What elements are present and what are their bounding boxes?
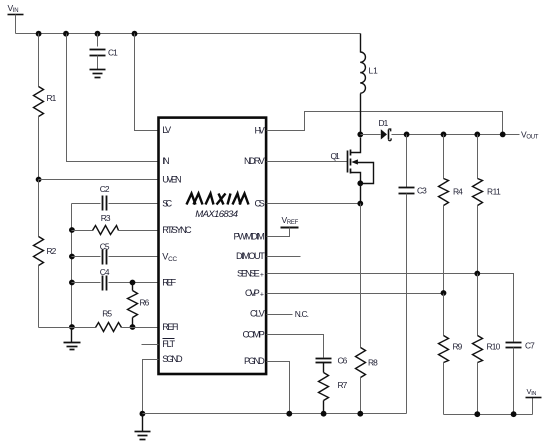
node OVP-R4 [441,290,447,296]
inductor L1 [360,34,378,135]
wire HV [267,112,503,135]
op-amp U1 MAX16834 IC body [159,118,267,374]
IC part number MAX16834 [195,209,238,220]
wire NDRV [267,161,348,163]
wire COMP [267,335,324,358]
wire bottom right rail [444,414,533,416]
svg-text:R1: R1 [47,93,57,103]
resistor R3 [72,213,159,235]
svg-text:L1: L1 [369,66,379,76]
node rail-REFI [69,324,75,330]
svg-text:REFI: REFI [162,322,178,332]
resistor R4 [439,135,464,294]
svg-text:CLV: CLV [250,309,266,319]
MAXIM logo [187,194,249,205]
wire OVP+ [267,293,444,295]
wire IN [67,34,159,162]
wire CLV stub [267,314,293,316]
wire FLT stub [142,344,159,346]
ground (under C1) [90,70,106,78]
svg-text:D1: D1 [379,118,389,128]
ground (SGND) [135,414,151,440]
node REFI-R6 [130,324,136,330]
svg-text:RT/SYNC: RT/SYNC [162,225,192,235]
svg-text:R7: R7 [338,380,348,390]
resistor R2 [34,180,57,328]
capacitor C3 [399,135,428,414]
svg-text:PGND: PGND [244,356,265,366]
node rail-REF [69,280,75,286]
svg-text:HV: HV [255,126,266,136]
node rail-PGND [286,411,292,417]
wire PGND [267,362,290,414]
svg-text:MAX16834: MAX16834 [195,209,238,220]
ground (left rail) [64,328,81,350]
transistor Q1 [331,138,374,184]
wire SENSE+ [267,274,514,342]
svg-text:Q1: Q1 [331,151,341,161]
svg-text:+: + [260,272,264,279]
VOUT label [521,129,539,140]
resistor R9 [439,294,463,415]
svg-text:PWMDIM: PWMDIM [234,232,265,242]
resistor R7 [319,363,348,414]
svg-text:R2: R2 [47,246,57,256]
node SENSE-R11 [474,271,480,277]
wire top VIN rail [16,33,361,35]
capacitor C2 [72,184,159,211]
svg-text:N.C.: N.C. [295,309,309,319]
svg-text:R3: R3 [101,213,111,223]
VREF supply symbol [281,215,299,228]
svg-text:OVP: OVP [245,288,260,298]
node rail2-R10 [474,411,480,417]
svg-text:CS: CS [255,199,265,209]
svg-text:R8: R8 [368,358,378,368]
node VOUT-R11 [474,132,480,138]
node VOUT-HV [500,132,506,138]
resistor R11 [473,135,502,274]
resistor R6 [128,283,150,328]
svg-text:SGND: SGND [162,354,183,364]
node rail-VCC [69,254,75,260]
diode D1 [361,118,407,141]
svg-text:IN: IN [162,156,169,166]
capacitor C7 [506,341,536,415]
svg-text:FLT: FLT [162,339,175,349]
svg-text:LV: LV [162,125,172,135]
wire LV [135,34,159,131]
wire PWMDIM [267,228,290,237]
node rail-R7 [321,411,327,417]
VIN supply symbol (bottom-right) [526,387,542,415]
node R1-R2-UVEN [36,177,42,183]
node rail-RT [69,227,75,233]
svg-text:REF: REF [162,278,176,288]
node rail2-C7 [511,411,517,417]
svg-text:SC: SC [162,199,172,209]
svg-text:NDRV: NDRV [244,156,266,166]
node VOUT-R4 [441,132,447,138]
node rail-R8 [357,411,363,417]
wire Q1 source to CS [360,184,362,204]
svg-text:C7: C7 [525,341,535,351]
svg-text:DIMOUT: DIMOUT [236,251,265,261]
node SGND-gnd [140,411,146,417]
svg-text:C5: C5 [100,242,110,252]
wire UVEN [39,179,159,181]
capacitor C6 [316,356,348,366]
node rail-LV [132,31,138,37]
wire SGND [143,360,159,414]
svg-text:+: + [260,292,264,299]
node VOUT-C3 [404,132,410,138]
svg-text:SENSE: SENSE [237,269,260,279]
wire CS [267,203,361,205]
node rail-C1 [95,31,101,37]
node rail-R1 [36,31,42,37]
resistor R5 [39,309,159,332]
svg-text:C2: C2 [100,184,110,194]
wire bottom ground rail [143,413,407,415]
svg-text:COMP: COMP [243,330,265,340]
VIN supply symbol (top-left) [8,3,24,34]
svg-text:UVEN: UVEN [162,175,181,185]
svg-text:C4: C4 [100,267,110,277]
N.C. label [295,309,309,319]
wire DIMOUT stub [267,256,301,258]
wire left rail [71,204,73,328]
IC pin labels right side [234,126,266,367]
svg-text:R4: R4 [453,187,463,197]
capacitor C4 [72,267,159,291]
svg-text:R6: R6 [140,298,150,308]
svg-text:R10: R10 [487,342,501,352]
node switch [357,132,363,138]
svg-text:R11: R11 [487,187,501,197]
resistor R10 [473,274,501,415]
svg-text:C1: C1 [108,48,118,58]
svg-text:R5: R5 [102,309,112,319]
IC pin labels left side [162,125,192,364]
svg-text:R9: R9 [453,342,463,352]
svg-text:C3: C3 [417,186,427,196]
node REF-R6 [130,280,136,286]
node Q1 source [357,180,363,186]
resistor R1 [34,34,57,180]
node CS-R8 [357,201,363,207]
capacitor C5 [72,242,159,265]
capacitor C1 [90,34,119,70]
node rail-IN [63,31,69,37]
resistor R8 [356,204,379,414]
wire VOUT row [407,134,520,136]
svg-text:C6: C6 [338,356,348,366]
